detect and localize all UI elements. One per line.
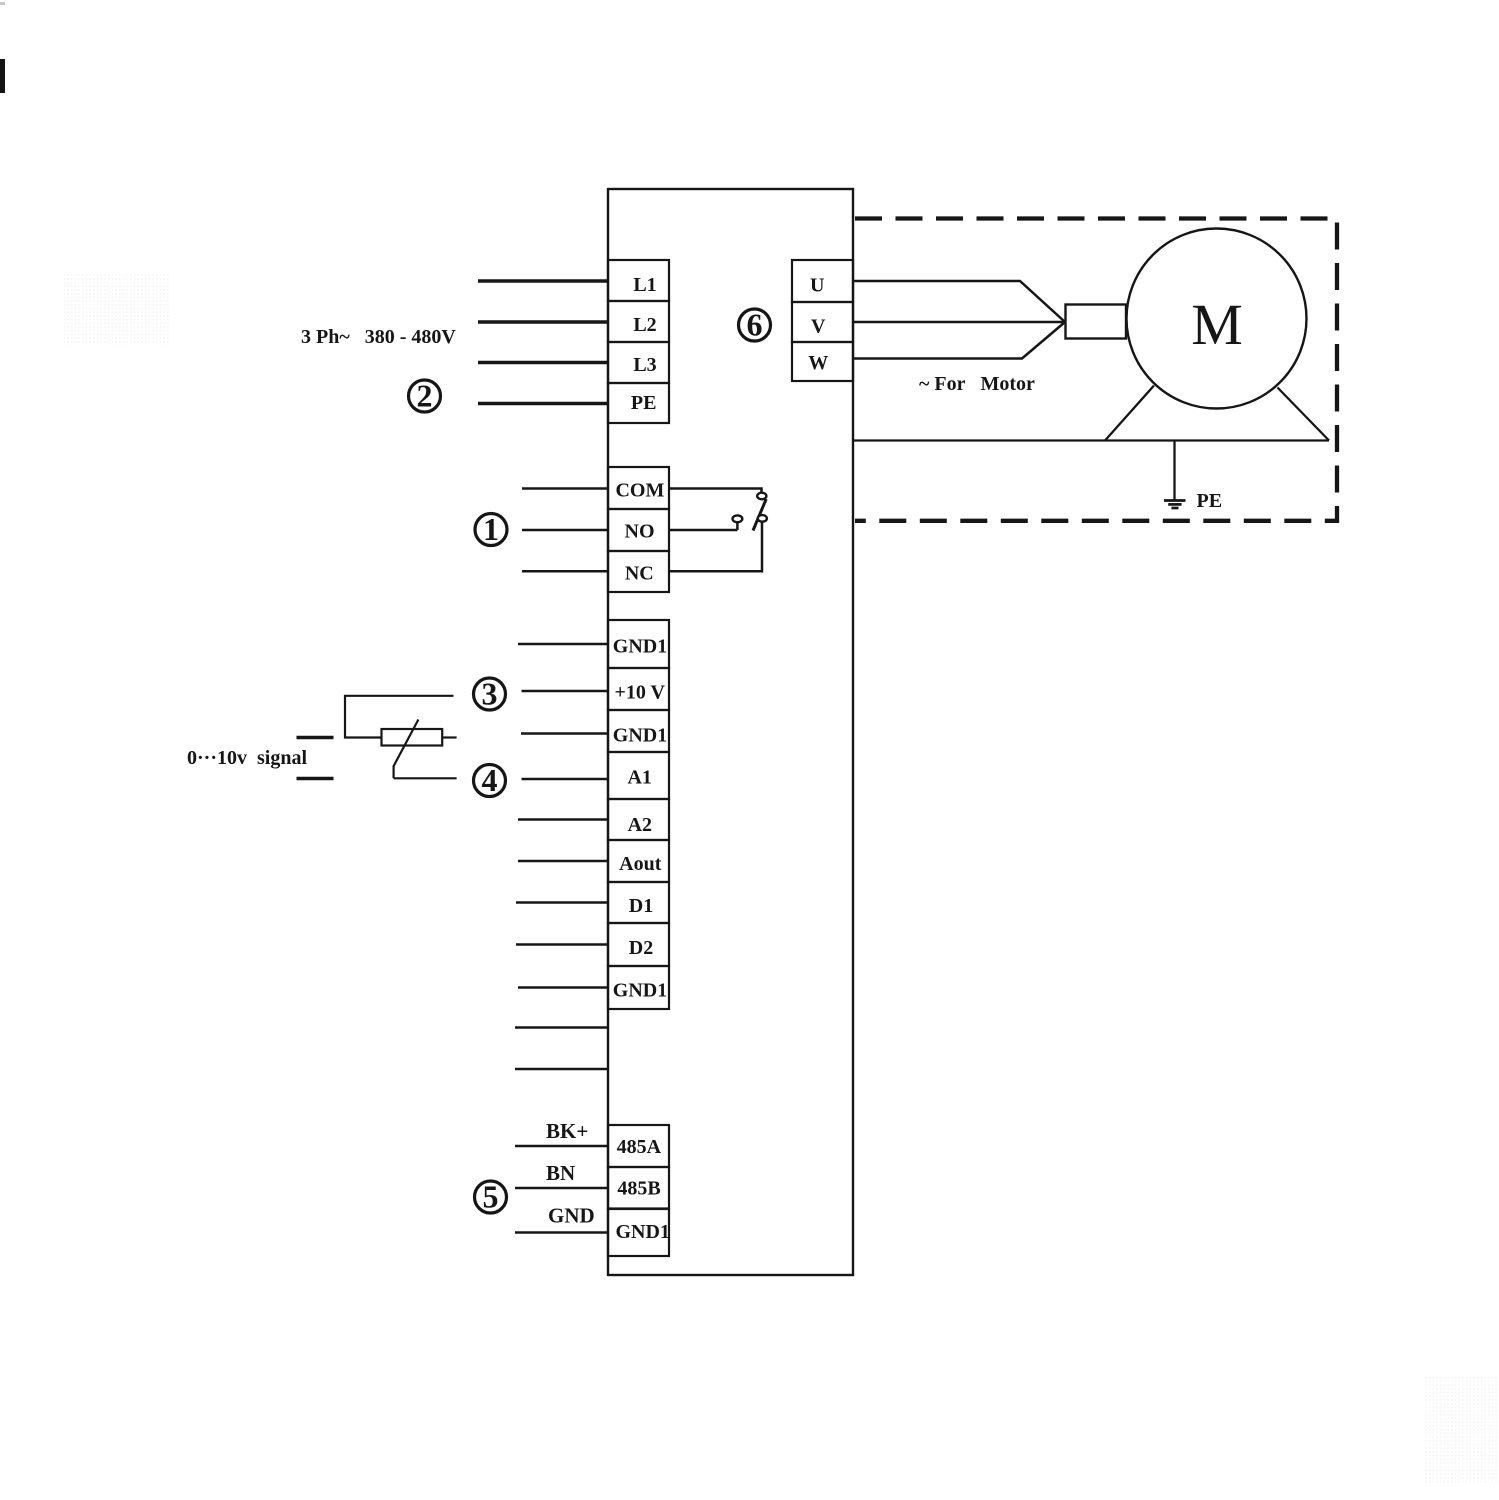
RS485 wires (515, 1146, 608, 1233)
wire +10V right (522, 690, 609, 693)
wire U (853, 281, 1065, 322)
input power wires (478, 281, 608, 404)
svg-text:A1: A1 (627, 767, 651, 789)
wire GND1 c (518, 986, 608, 989)
wire Aout (518, 860, 608, 863)
relay switch (669, 489, 767, 572)
wire NC right (669, 522, 762, 571)
signal stub top (297, 736, 334, 740)
terminal W (792, 342, 853, 381)
svg-text:Aout: Aout (619, 853, 662, 875)
terminal D2 (608, 923, 669, 966)
terminal GND1 d (608, 1209, 669, 1257)
terminal D1 (608, 882, 669, 923)
dashed motor enclosure (855, 219, 1337, 521)
svg-text:485B: 485B (617, 1178, 660, 1200)
motor coupling (1066, 305, 1127, 339)
svg-text:U: U (810, 275, 824, 297)
terminal L2 (608, 301, 669, 342)
terminal GND1 c (608, 966, 669, 1009)
callout 2 (409, 378, 441, 414)
terminal COM (608, 467, 669, 509)
terminal L3 (608, 342, 669, 383)
callout 5 (475, 1179, 507, 1215)
svg-text:GND1: GND1 (615, 1221, 669, 1243)
svg-text:L2: L2 (633, 314, 656, 336)
svg-text:0···10v signal: 0···10v signal (187, 747, 307, 769)
wire COM left (522, 487, 608, 490)
svg-text:NC: NC (625, 563, 654, 585)
svg-text:COM: COM (615, 480, 664, 502)
wire spare 2 (515, 1068, 608, 1071)
svg-text:NO: NO (625, 521, 655, 543)
svg-text:485A: 485A (617, 1136, 662, 1158)
PE earth drop wire (1173, 441, 1175, 500)
svg-text:GND: GND (548, 1204, 595, 1228)
svg-text:3 Ph~ 380 - 480V: 3 Ph~ 380 - 480V (301, 326, 456, 348)
svg-text:GND1: GND1 (613, 980, 667, 1002)
terminal labels (613, 274, 829, 1243)
wire W (853, 322, 1065, 359)
potentiometer circuit (297, 696, 457, 779)
wire NO left (522, 529, 608, 532)
svg-text:1: 1 (483, 511, 499, 547)
relay wires left (522, 489, 608, 572)
wire L2 (478, 320, 608, 324)
terminal GND1 a (608, 620, 669, 668)
wire PE (478, 402, 608, 406)
motor stand left leg (1105, 386, 1154, 441)
svg-text:D1: D1 (629, 895, 653, 917)
svg-text:W: W (808, 352, 828, 374)
motor stand right leg (1278, 388, 1330, 441)
svg-text:A2: A2 (628, 814, 652, 836)
motor power wires (853, 281, 1065, 359)
motor circle (1127, 229, 1307, 409)
wire GND1 b (521, 732, 608, 735)
svg-text:6: 6 (747, 307, 763, 343)
analog / digital wires (515, 644, 608, 1069)
svg-text:D2: D2 (629, 937, 653, 959)
wire 485A (515, 1145, 608, 1148)
svg-text:L3: L3 (633, 354, 656, 376)
callout 3 (474, 676, 506, 712)
pot wiper arrow (394, 720, 419, 779)
terminal Aout (608, 840, 669, 882)
wire V (853, 321, 1065, 324)
wire NC left (522, 570, 608, 573)
wire D1 (516, 901, 608, 904)
terminal NO (608, 509, 669, 551)
terminal 485B (608, 1167, 669, 1209)
callout 1 (475, 511, 507, 547)
terminal V (792, 302, 853, 342)
svg-text:V: V (811, 316, 826, 338)
svg-text:+10 V: +10 V (614, 682, 665, 704)
contact dot NO (733, 515, 743, 522)
terminal NC (608, 551, 669, 592)
svg-text:5: 5 (483, 1179, 499, 1215)
wire pot right lead (442, 736, 456, 738)
callout 4 (474, 762, 506, 798)
switch blade (753, 499, 766, 531)
svg-text:BN: BN (546, 1161, 575, 1185)
terminal L1 (608, 260, 669, 301)
wire A2 (518, 818, 608, 821)
terminal GND1 b (608, 710, 669, 752)
svg-text:4: 4 (482, 762, 498, 798)
contact dot NC (758, 515, 767, 522)
drive main box (608, 189, 853, 1275)
terminal +10V (608, 668, 669, 710)
wire wiper to A1 (394, 777, 457, 779)
wire +10V to pot corner (345, 696, 454, 738)
svg-text:M: M (1191, 292, 1243, 357)
wire A1 right (522, 778, 609, 781)
wire COM right (669, 489, 762, 493)
svg-text:BK+: BK+ (546, 1119, 588, 1143)
svg-text:2: 2 (417, 378, 433, 414)
wire 485B (515, 1187, 608, 1190)
svg-text:PE: PE (631, 392, 657, 414)
terminal U (792, 260, 853, 302)
svg-text:3: 3 (482, 676, 498, 712)
svg-text:PE: PE (1197, 490, 1223, 512)
motor base line (853, 439, 1329, 441)
signal stub bottom (297, 777, 334, 781)
wire NO right (669, 523, 737, 531)
edge artifact bar (0, 59, 5, 93)
svg-text:GND1: GND1 (613, 725, 667, 747)
wire L3 (478, 361, 608, 365)
terminal A2 (608, 799, 669, 840)
wire GND 485 (515, 1231, 608, 1234)
wire spare 1 (515, 1026, 608, 1029)
svg-text:L1: L1 (633, 274, 656, 296)
callout 6 (739, 307, 771, 343)
wire GND1 a (518, 643, 608, 646)
terminal 485A (608, 1125, 669, 1167)
potentiometer body (382, 729, 443, 746)
terminal A1 (608, 752, 669, 799)
svg-text:~ For Motor: ~ For Motor (919, 373, 1035, 395)
earth symbol (1164, 501, 1186, 509)
svg-text:GND1: GND1 (613, 636, 667, 658)
wire L1 (478, 279, 608, 283)
terminal PE (608, 383, 669, 423)
contact dot COM (757, 493, 766, 500)
wire D2 (516, 943, 608, 946)
